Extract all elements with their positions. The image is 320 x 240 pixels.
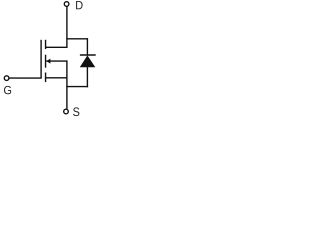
transistor Q1 body lead with arrow [46, 60, 67, 62]
wire gate [9, 77, 42, 79]
transistor Q1 source lead [46, 77, 67, 79]
wire drain-to-diode branch [66, 38, 87, 40]
label S [73, 107, 79, 116]
terminal G (gate pin circle) [4, 76, 9, 81]
label D [76, 1, 83, 9]
wire diode anode vertical [86, 67, 88, 87]
terminal S (source pin circle) [64, 109, 69, 114]
label G [4, 86, 11, 94]
transistor Q1 channel dash (body segment) [45, 55, 47, 68]
transistor Q1 channel dash (source segment) [45, 73, 47, 83]
transistor Q1 drain lead [46, 46, 67, 48]
wire source-to-diode branch [66, 86, 88, 88]
wire source vertical [66, 60, 68, 109]
diode D1 anode triangle [80, 55, 96, 67]
wire diode cathode vertical [86, 38, 88, 55]
terminal D (drain pin circle) [64, 2, 69, 7]
transistor Q1 channel dash (drain segment) [45, 40, 47, 49]
diode D1 cathode bar [80, 54, 96, 56]
wire drain vertical [66, 6, 68, 48]
transistor Q1 gate plate [40, 40, 42, 79]
transistor Q1 body arrowhead [46, 59, 50, 64]
